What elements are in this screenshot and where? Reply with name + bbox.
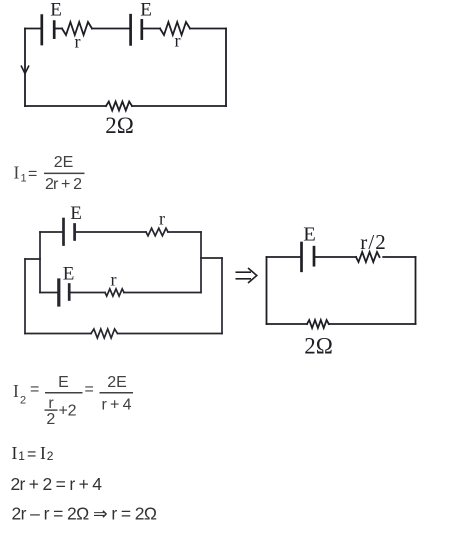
wire: circuit1 bottom-right segment <box>132 105 226 107</box>
wire: circuit2 right jog <box>201 257 222 259</box>
battery E3 long plate <box>62 219 65 245</box>
svg-text:2r + 2 = r + 4: 2r + 2 = r + 4 <box>11 474 103 494</box>
battery E4 long plate <box>57 280 60 305</box>
wire: circuit3 bottom-left segment <box>267 323 308 325</box>
wire: r3 to inner-right <box>168 231 201 233</box>
wire: circuit3 bottom-right segment <box>329 323 416 325</box>
battery E1 long plate <box>40 16 43 44</box>
svg-text:r/2: r/2 <box>360 230 386 254</box>
svg-text:E: E <box>58 374 69 391</box>
svg-text:2r + 2: 2r + 2 <box>45 176 82 193</box>
current arrow I1 (down) <box>21 66 28 73</box>
svg-text:2: 2 <box>46 411 55 428</box>
resistor 2ohm circuit1 <box>106 102 132 111</box>
wire: circuit2 outer-right vertical <box>221 258 223 334</box>
svg-text:=: = <box>30 381 39 398</box>
svg-text:E: E <box>50 0 62 21</box>
wire: E1 to r1 <box>55 28 62 30</box>
battery E2 short plate <box>140 20 143 38</box>
wire: circuit2 bottom-left segment <box>25 333 91 335</box>
wire: E4 to r4 <box>71 292 106 294</box>
svg-text:r: r <box>159 209 165 229</box>
wire: circuit2 inner-right vertical <box>200 232 202 293</box>
svg-text:2Ω: 2Ω <box>105 113 134 138</box>
wire: E3 to r3 <box>76 231 146 233</box>
svg-text:2E: 2E <box>54 154 74 171</box>
svg-text:2Ω: 2Ω <box>304 334 333 359</box>
svg-text:2: 2 <box>47 449 54 463</box>
wire: r/2 to top-right corner <box>383 256 415 258</box>
wire: E2 to r2 <box>143 28 160 30</box>
svg-text:2r – r = 2Ω ⇒ r = 2Ω: 2r – r = 2Ω ⇒ r = 2Ω <box>12 504 158 524</box>
svg-text:I: I <box>13 381 19 401</box>
wire: r2 to top-right corner <box>190 28 226 30</box>
battery E5 long plate <box>300 243 303 271</box>
wire: E5 to r/2 <box>315 256 356 258</box>
svg-text:r: r <box>48 395 54 412</box>
resistor r2 <box>160 22 190 35</box>
svg-text:E: E <box>63 264 75 285</box>
battery E1 short plate <box>53 22 56 38</box>
wire: circuit3 left vertical <box>266 257 268 324</box>
equation I2 = E/(r/2+2) = 2E/(r+4) <box>13 374 133 428</box>
svg-text:r: r <box>111 270 117 290</box>
svg-text:r: r <box>75 32 81 52</box>
wire: circuit2 top branch left <box>40 231 62 233</box>
svg-text:1: 1 <box>18 449 25 463</box>
wire: circuit2 bottom-right segment <box>118 333 223 335</box>
svg-text:1: 1 <box>21 173 27 185</box>
wire: circuit2 middle branch left <box>40 292 57 294</box>
svg-text:=: = <box>28 166 37 183</box>
resistor r1 <box>62 22 92 35</box>
battery E4 short plate <box>68 285 71 300</box>
svg-text:2: 2 <box>20 395 26 407</box>
wire: circuit2 left jog <box>25 258 40 260</box>
resistor 2ohm circuit3 <box>307 320 329 328</box>
equation I1 = 2E / (2r+2) <box>14 154 85 193</box>
battery E3 short plate <box>73 225 76 240</box>
wire: circuit1 right vertical <box>225 29 227 107</box>
svg-text:2E: 2E <box>107 374 127 391</box>
wire: circuit2 outer-left vertical <box>24 259 26 334</box>
wire: circuit1 top-left segment <box>25 28 41 30</box>
svg-text:+ 2: + 2 <box>59 403 77 420</box>
svg-text:I: I <box>12 443 18 463</box>
svg-text:E: E <box>70 203 82 224</box>
resistor 2ohm circuit2 <box>91 329 117 338</box>
equation I1 = I2 <box>12 443 54 463</box>
battery E2 long plate <box>129 15 132 44</box>
resistor r4 <box>105 289 124 296</box>
svg-text:I: I <box>40 443 46 463</box>
wire: r4 to inner-right <box>124 292 201 294</box>
wire: circuit1 left vertical <box>24 29 26 107</box>
implies arrow between circuit2 and circuit3 <box>236 268 257 283</box>
svg-text:=: = <box>85 381 94 398</box>
svg-text:E: E <box>303 224 316 246</box>
svg-text:=: = <box>27 446 36 463</box>
wire: r1 to E2 <box>92 28 129 30</box>
battery E5 short plate <box>313 247 316 265</box>
wire: circuit3 right vertical <box>415 257 417 324</box>
svg-text:I: I <box>14 163 20 183</box>
svg-text:E: E <box>140 0 152 21</box>
wire: circuit1 bottom-left segment <box>25 105 106 107</box>
svg-text:r + 4: r + 4 <box>102 397 132 414</box>
resistor r3 <box>146 228 168 236</box>
wire: circuit2 inner-left vertical <box>39 232 41 293</box>
wire: circuit3 top-left segment <box>267 256 301 258</box>
resistor r/2 <box>356 252 380 262</box>
svg-text:r: r <box>175 31 181 51</box>
